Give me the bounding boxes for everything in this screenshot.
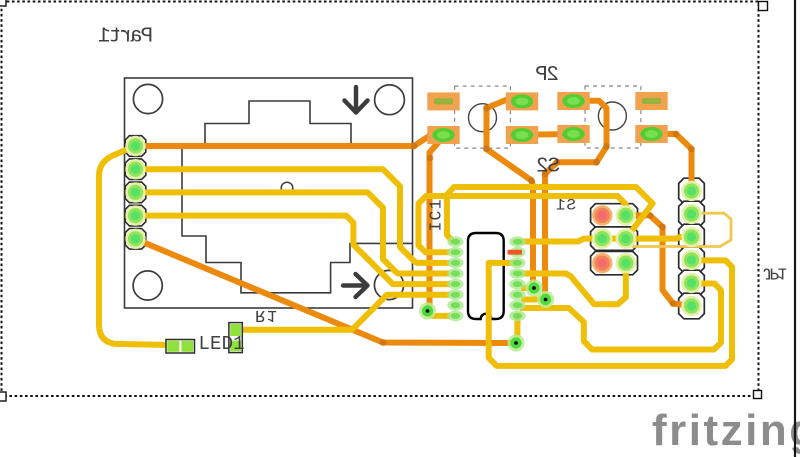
header S1 octagon outlines [591,204,639,275]
switch S2R dashed outline [585,86,641,148]
IC1 SMD pads left/right [447,236,525,321]
wire: via V1 to IC1 row8 left [428,311,451,316]
selection handle top-left [0,0,6,6]
switch S2L pad 4 [506,126,538,144]
svg-text:IC1: IC1 [426,199,445,231]
header JP1 pin 1 pad [681,181,701,201]
selection handle top-right [759,2,768,11]
wire: IC1 row8 right to via V4 [516,316,517,343]
header S1 pad TL [592,205,612,225]
Part1 right arrow [343,274,368,297]
ratsnest: unrouted IC1 right row2 [508,250,523,255]
via V2 [525,279,542,296]
header S1 pad ML [592,228,612,248]
svg-text:JP1: JP1 [762,263,787,282]
connector Part1 (RJ45 jack) outline [125,78,413,308]
wire: RJ45 pin4 to IC1 pin row5 [135,216,450,285]
svg-text:R1: R1 [255,305,277,324]
svg-text:fritzing: fritzing [652,406,800,455]
switch S2L pad 3 [427,126,459,144]
svg-text:LED1: LED1 [199,333,245,355]
switch S2R pad 2 (nc) [635,92,667,110]
wire: switch S2L pad TR to via V2 [487,100,535,289]
wire: header S1 pad TR to IC1 pin row1 [447,187,653,242]
Part1 pin 4 pad [125,205,145,225]
header S1 pad BR [616,253,636,273]
junction shading dots [380,105,695,346]
Part1 pin 1 pad [125,136,145,156]
wire: IC1 row3 right through body to JP1 pin4 [489,260,732,366]
header S1 pad MR [616,228,636,248]
switch S2R pad 4 [635,125,667,143]
header JP1 octagon outlines [679,178,705,319]
window edge line [794,0,796,457]
wire: via V2 to IC1 right row5 [521,285,534,291]
Part1 down arrow [345,87,368,113]
wire: via V3 to IC1 right row7 [521,297,546,303]
wire: header S1 pad MR to IC1 pin row2 [419,196,626,252]
selection handle bottom-left [0,392,6,401]
svg-text:Part1: Part1 [98,26,153,49]
Part1 pin 5 pad [125,229,145,249]
header JP1 pin 4 pad [681,250,701,270]
switch S2L pad 2 [506,92,538,110]
via V1 [419,302,436,319]
header JP1 pin 6 pad [681,296,701,316]
header JP1 pin 5 pad [681,273,701,293]
wire: header S1 pad TR to JP1 pin6 [630,215,692,306]
selection handle bottom-right [754,391,762,399]
wire: switch S2R pad BR to JP1 pin1 [651,134,692,191]
wire: switch S2L pad BL down to via V1 [428,137,444,312]
wire: IC1 row4 right to S1 pad BR [520,263,626,304]
wire: switch S2L BR to S2R BL [522,131,573,138]
via V4 [507,334,524,351]
wire: switch S2R pad TL to via V3 [545,101,607,300]
wire: RJ45 pin2 to IC1 pin row3 [135,169,450,263]
switch S2L dashed outline [455,86,511,148]
LED1 [166,340,195,354]
wire: RJ45 pin1 to switch S2L pad BL (top copper) [135,135,444,146]
Part1 pin 3 pad [125,182,145,202]
svg-text:S1: S1 [556,197,576,215]
Part1 pin 2 pad [125,159,145,179]
svg-text:S2: S2 [536,156,560,179]
resistor R1 [229,323,242,353]
header S1 pad TR [616,205,636,225]
wire: IC1 row7 right to JP1 pin5 [520,284,721,350]
wire: RJ45 pin1 to LED1 (bottom copper) [99,146,172,345]
wire: IC1 row1 right to S1 and JP1 pin3 [520,237,692,242]
header S1 pad BL [592,253,612,273]
switch S2R pad 3 [557,125,589,143]
header JP1 pin 3 pad [681,227,701,247]
Part1 pin pad octagon outlines [125,136,146,249]
wire: thin jumper S1 MR to JP1 pin2 [626,213,731,246]
wire: R1 to IC1 pin row6 [236,295,450,330]
wire: RJ45 pin3 to IC1 pin row4 [135,192,450,273]
switch S2R pad 1 [557,92,589,110]
svg-text:2P: 2P [535,64,559,87]
via V3 [537,291,554,308]
IC1 body [468,233,504,319]
switch S2L pad 1 (nc) [427,92,459,110]
header JP1 pin 2 pad [681,204,701,224]
wire: RJ45 pin5 to via V4 [135,239,516,343]
